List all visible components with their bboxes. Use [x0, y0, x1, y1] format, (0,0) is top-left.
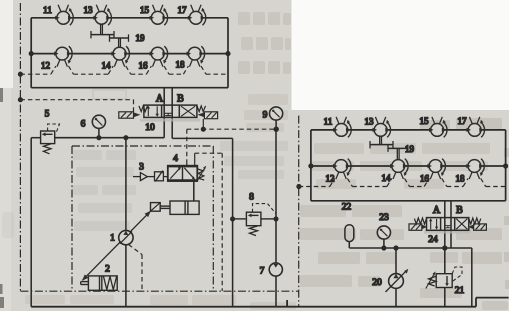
svg-text:12: 12: [326, 174, 335, 184]
pilot dashed drop to valve 4: [186, 129, 188, 160]
node pump 20 riser: [394, 246, 398, 250]
svg-text:13: 13: [365, 116, 375, 126]
valve 24 left solenoid: [409, 224, 427, 230]
coupling 14: [111, 46, 129, 66]
node pilot left boundary 2: [19, 98, 23, 102]
coupling 11 right: [333, 117, 351, 137]
coupling 18: [187, 46, 205, 66]
valve 4 pilot stubs: [186, 160, 188, 166]
pump 20: [389, 274, 404, 289]
valve 24 left spring: [414, 218, 426, 224]
wire B left manifold to valve 10: [171, 88, 173, 139]
svg-text:17: 17: [458, 116, 468, 126]
svg-text:8: 8: [249, 193, 254, 203]
right manifold box: [311, 130, 506, 201]
valve 4 spring adjust arrow: [197, 168, 205, 182]
node gauge 23: [382, 246, 386, 250]
svg-text:A: A: [433, 205, 441, 216]
svg-text:18: 18: [456, 174, 466, 184]
coupling 14 right: [390, 159, 408, 179]
svg-text:6: 6: [81, 120, 86, 130]
node valve8 right: [274, 217, 278, 221]
coupling 11: [55, 5, 73, 25]
wire A right manifold to valve 24: [444, 201, 446, 248]
white margin left strip: [0, 0, 13, 88]
node gauge 6: [97, 136, 101, 140]
svg-text:4: 4: [173, 154, 178, 164]
svg-text:7: 7: [260, 267, 265, 277]
valve 24 centre position: [445, 226, 451, 228]
control cylinder: [160, 201, 199, 214]
svg-text:3: 3: [139, 163, 144, 173]
throttle inlet 3: [133, 170, 168, 181]
coupling 15 right: [429, 117, 447, 137]
bias cylinder 2: [81, 276, 118, 290]
coupling 18 right: [466, 159, 484, 179]
svg-text:14: 14: [102, 60, 112, 70]
svg-text:2: 2: [105, 265, 110, 275]
manifold labels right: [324, 116, 467, 184]
dashed clamp pilot line right manifold: [299, 178, 506, 186]
svg-text:18: 18: [176, 60, 186, 70]
coupling 17: [188, 5, 206, 25]
wire B right manifold to valve 24: [450, 201, 452, 248]
wire valve10 right solenoid pilot stub: [202, 119, 204, 129]
clamp 19 right: [370, 136, 408, 159]
valve 10 left square arrows: [147, 106, 160, 117]
wire P-line: [31, 138, 164, 307]
clamp 19 left: [91, 24, 129, 47]
wire pump 20 header: [349, 247, 472, 249]
svg-text:B: B: [177, 94, 184, 105]
valve 24 right square crossed arrows: [456, 219, 467, 230]
white margin top-right: [292, 0, 509, 110]
node valve8 left: [231, 217, 235, 221]
enclosure dash-dot boundary left fixture: [20, 3, 298, 291]
wire T drop right: [471, 248, 473, 307]
manifold labels left: [41, 5, 187, 71]
left manifold box: [31, 18, 228, 88]
valve 10 right square crossed arrows: [181, 106, 195, 116]
svg-text:16: 16: [420, 174, 430, 184]
coupling 16: [150, 46, 168, 66]
gauge 6: [98, 129, 100, 138]
svg-text:19: 19: [405, 144, 415, 154]
node valve 24 P: [443, 246, 447, 250]
svg-text:B: B: [456, 205, 463, 216]
wire A left manifold to valve 10: [163, 88, 165, 138]
svg-text:17: 17: [178, 5, 188, 15]
svg-text:12: 12: [41, 60, 50, 70]
coupling 16 right: [427, 159, 445, 179]
svg-text:1: 1: [110, 234, 115, 244]
wire pump riser: [125, 138, 127, 307]
pump 1: [119, 230, 133, 244]
valve 10 left spring: [139, 106, 148, 112]
bleed-through text artifacts: [93, 90, 126, 99]
svg-text:15: 15: [420, 116, 430, 126]
dashed clamp pilot line left manifold: [20, 66, 228, 74]
svg-text:24: 24: [428, 235, 438, 245]
valve 24 right spring: [469, 218, 481, 224]
gauge 23: [383, 239, 385, 248]
svg-text:13: 13: [84, 5, 94, 15]
wire drain line right: [275, 129, 277, 263]
valve 4 spring: [198, 169, 205, 180]
svg-text:15: 15: [140, 5, 150, 15]
coupling 13: [93, 5, 111, 25]
pump 20 riser and suction: [395, 248, 397, 307]
valve 24 shadow: [424, 231, 471, 234]
valve 10 centre position A/B to T: [164, 113, 172, 115]
variable arrow pump 1: [83, 211, 151, 280]
svg-text:5: 5: [45, 110, 50, 120]
svg-text:16: 16: [139, 60, 149, 70]
pilot dashed line gauge 9 row: [187, 128, 276, 130]
relief valve 21: [444, 248, 446, 307]
coupling 12: [54, 46, 72, 66]
coupling 13 right: [373, 117, 391, 137]
coupling 17 right: [467, 117, 485, 137]
svg-text:11: 11: [324, 116, 333, 126]
svg-text:23: 23: [379, 213, 389, 223]
valve 10 shadow: [140, 119, 200, 122]
accumulator 22: [345, 225, 354, 242]
gauge 9: [275, 120, 277, 129]
svg-text:11: 11: [43, 5, 52, 15]
node right manifold row left: [309, 164, 313, 168]
wire T-line: [172, 138, 232, 306]
node pilot left boundary: [19, 72, 23, 76]
coupling 12 right: [333, 159, 351, 179]
valve 24 right solenoid: [468, 224, 486, 230]
valve 24 left square arrows: [429, 218, 438, 229]
node bottom row left: [29, 52, 33, 56]
valve 10 left solenoid: [119, 112, 141, 118]
svg-text:14: 14: [382, 173, 392, 183]
wire valve 4 to control cylinder: [193, 181, 195, 201]
filter 7: [269, 263, 282, 276]
svg-text:21: 21: [455, 286, 465, 296]
svg-text:19: 19: [136, 33, 146, 43]
relief valve 8: [233, 204, 276, 236]
svg-text:20: 20: [372, 278, 382, 288]
svg-text:22: 22: [342, 203, 352, 213]
pilot dashed to drain: [195, 153, 223, 291]
relief valve 5: [41, 124, 60, 154]
valve 4 body: [168, 166, 198, 181]
valve 10 right spring: [197, 106, 206, 112]
enclosure dash-dot boundary right fixture: [298, 116, 300, 307]
pilot dashed line to left solenoid: [20, 100, 133, 112]
pump stroking box: [151, 203, 161, 212]
valve 10 body: [144, 105, 197, 117]
svg-text:10: 10: [145, 123, 155, 133]
pump drain dashed: [129, 245, 143, 292]
node right manifold row right: [504, 164, 508, 168]
node bottom row right: [226, 52, 230, 56]
valve 24 body: [427, 218, 469, 231]
node pilot stub: [202, 127, 206, 131]
pump unit dash-dot box: [72, 146, 213, 291]
valve 10 right solenoid: [197, 112, 217, 119]
node pilot right boundary: [297, 185, 301, 189]
svg-text:A: A: [156, 94, 164, 105]
node pump riser: [124, 136, 128, 140]
node gauge 9: [274, 127, 278, 131]
coupling 15: [150, 5, 168, 25]
svg-text:9: 9: [263, 111, 268, 121]
tank bottom line: [31, 298, 508, 307]
